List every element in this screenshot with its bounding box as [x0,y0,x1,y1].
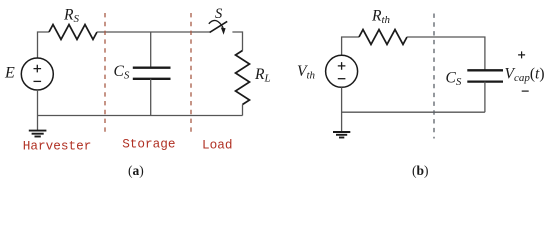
ground (a) [29,131,47,137]
wire (b): source V_th top to resistor R_th left lead [342,37,359,55]
label V_th [297,63,316,82]
label C_S (b) [446,70,462,89]
svg-text:(a): (a) [128,163,144,178]
voltage source V_th [326,55,358,87]
boundary dashed line: harvester / storage [104,13,106,136]
caption (a) [128,163,144,178]
svg-text:Harvester: Harvester [23,139,92,154]
svg-text:Storage: Storage [122,136,175,151]
region label: Load [202,138,232,153]
svg-text:E: E [4,64,15,81]
capacitor C_S (storage) top lead [150,32,152,68]
boundary dashed line (b) [433,14,435,139]
wire (b): V_th bottom to ground stub [341,87,343,131]
wire (a): source E top to resistor R_S left lead [38,32,50,58]
polarity − of V_cap [522,90,529,92]
wire (a): switch right contact to resistor R_L top lead [232,32,242,51]
capacitor C_S plates [133,68,171,79]
svg-text:(b): (b) [412,163,429,178]
region label: Storage [122,136,175,151]
label R_th [371,8,391,27]
polarity + of V_cap [518,51,525,58]
capacitor C_S (b) plates [467,70,503,81]
caption (b) [412,163,429,178]
wire (a): R_L bottom lead to bottom rail [242,105,244,116]
wire (a): R_S right lead to switch S left contact [97,31,211,33]
region label: Harvester [23,139,92,154]
svg-text:Load: Load [202,138,232,153]
resistor R_L [236,51,250,105]
label S [215,6,223,22]
wire (a): E bottom to bottom rail / ground stub [37,90,39,130]
label C_S [114,63,130,82]
ground (b) [333,132,350,138]
capacitor C_S bottom lead [150,79,152,116]
boundary dashed line: storage / load [190,13,192,133]
capacitor C_S (b) bottom lead [484,82,486,113]
wire (b): bottom rail [342,111,485,113]
label R_L [254,66,271,85]
wire (a): bottom rail (ground net) [38,115,243,117]
resistor R_S [49,25,97,40]
label R_S [63,7,79,26]
label V_cap(t) [505,66,545,85]
label E [4,64,15,81]
resistor R_th [359,30,407,45]
wire (b): R_th right lead to capacitor C_S top lead [407,37,485,70]
switch S (normally-open, closing arrow) [209,20,227,34]
svg-text:S: S [215,6,223,22]
voltage source E [21,58,53,90]
